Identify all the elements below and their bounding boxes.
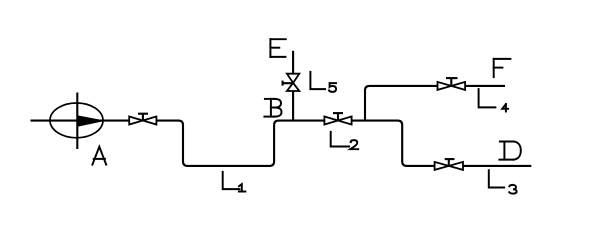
wire: junction up to valve L4 bbox=[365, 86, 438, 121]
valve L2 bbox=[324, 113, 351, 124]
valve L4 bbox=[438, 78, 466, 90]
wire: valve L4 to F bbox=[465, 85, 505, 87]
wire: node B up to valve L5 bbox=[292, 91, 294, 121]
label A bbox=[92, 147, 106, 165]
valve L5 bbox=[283, 74, 300, 91]
valve L3 bbox=[435, 159, 463, 170]
wire: valve L3 to D bbox=[463, 165, 531, 167]
wire: valve V1 to node B (pipe run L1) bbox=[156, 121, 324, 166]
label L3 bbox=[489, 170, 517, 193]
wire: valve L5 to E bbox=[292, 51, 294, 74]
valve V1 bbox=[129, 114, 156, 125]
label L2 bbox=[331, 132, 359, 149]
label L5 bbox=[310, 72, 336, 92]
label L4 bbox=[479, 89, 509, 111]
label E bbox=[270, 39, 285, 57]
wire: inlet to valve V1 bbox=[31, 120, 130, 122]
label L1 bbox=[223, 172, 246, 192]
wire: valve L2 to junction and down to valve L3 bbox=[352, 121, 435, 166]
node B label bbox=[264, 99, 281, 117]
label F bbox=[494, 59, 511, 77]
label D bbox=[499, 142, 520, 160]
pump A bbox=[50, 93, 103, 150]
